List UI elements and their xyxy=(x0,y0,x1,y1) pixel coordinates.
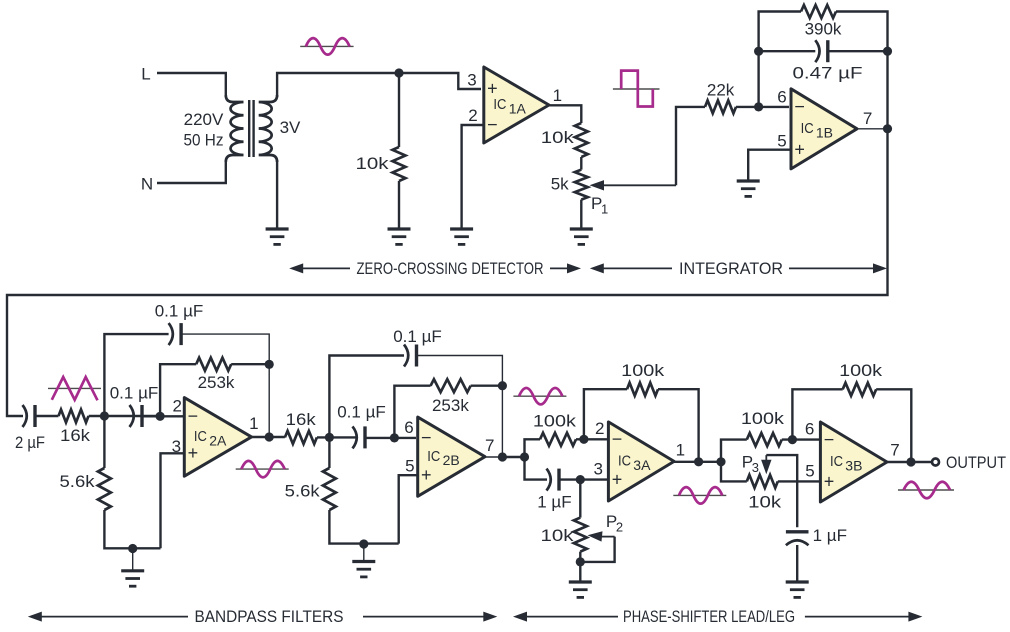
wire 10k top xyxy=(398,73,400,147)
wire feedback down to output first xyxy=(268,364,270,437)
svg-text:3V: 3V xyxy=(280,118,301,137)
resistor 390k xyxy=(801,5,836,18)
wire 100k feedback IC3B xyxy=(792,389,842,439)
square-wave symbol xyxy=(613,71,660,107)
wire L lead xyxy=(157,73,226,97)
wire 22k to IC1B pin6 xyxy=(736,106,789,108)
capacitor 0.47uF xyxy=(815,40,819,62)
wire IC2B output to branch xyxy=(502,456,524,458)
svg-text:22k: 22k xyxy=(707,81,735,100)
svg-text:5: 5 xyxy=(405,456,414,475)
wire P3 wiper to 1uF xyxy=(766,455,797,527)
wire branch up 100k input xyxy=(525,439,541,457)
ground transformer xyxy=(266,229,289,244)
svg-text:1: 1 xyxy=(676,441,685,460)
svg-text:0.1 µF: 0.1 µF xyxy=(155,301,204,320)
sine-wave symbol after IC3A xyxy=(673,487,726,504)
op-amp IC2A xyxy=(184,398,251,477)
wire 100k to pin6 IC3B xyxy=(782,438,819,440)
svg-text:0.1 µF: 0.1 µF xyxy=(110,384,159,403)
svg-text:0.47 µF: 0.47 µF xyxy=(793,64,863,83)
svg-text:−: − xyxy=(487,115,498,135)
wire 253k feedback first xyxy=(160,364,196,416)
sine-wave symbol input xyxy=(300,38,353,55)
svg-text:−: − xyxy=(824,429,835,449)
output terminal xyxy=(932,459,939,466)
svg-text:−: − xyxy=(612,429,623,449)
wire 253k to junction second xyxy=(471,385,503,387)
svg-text:5: 5 xyxy=(777,132,786,151)
svg-text:10k: 10k xyxy=(541,128,575,147)
svg-text:+: + xyxy=(824,471,835,491)
wiper P2 arrow xyxy=(588,531,615,541)
wire IC2B pin5 xyxy=(399,475,418,543)
svg-text:7: 7 xyxy=(863,109,872,128)
svg-text:+: + xyxy=(421,465,432,485)
svg-text:ZERO-CROSSING DETECTOR: ZERO-CROSSING DETECTOR xyxy=(357,260,544,278)
node junction 16k/5.6k xyxy=(100,411,109,420)
svg-text:IC: IC xyxy=(427,448,440,465)
transformer T1 secondary winding xyxy=(259,95,277,162)
resistor 22k xyxy=(705,100,736,113)
svg-text:390k: 390k xyxy=(805,20,842,39)
svg-text:2A: 2A xyxy=(209,432,227,448)
wire IC1B pin5 to ground xyxy=(748,150,791,181)
resistor 10k divider xyxy=(575,123,588,157)
svg-text:6: 6 xyxy=(805,419,814,438)
svg-text:2B: 2B xyxy=(443,452,460,468)
arrow zero-crossing right xyxy=(550,263,581,273)
op-amp IC1B xyxy=(791,89,857,169)
wire 16k to junction second xyxy=(317,436,356,438)
svg-text:100k: 100k xyxy=(621,361,665,380)
wire 5.6k vertical first xyxy=(104,416,160,548)
wire junction to IC2B pin6 xyxy=(365,437,416,439)
resistor 16k second xyxy=(285,431,317,444)
ground IC2B xyxy=(352,562,375,577)
node junction P2 bottom xyxy=(576,557,585,566)
wire 16k to junction xyxy=(89,415,160,417)
ground 1uF xyxy=(786,582,809,597)
svg-text:2 µF: 2 µF xyxy=(15,433,45,452)
resistor 5.6k second xyxy=(323,468,336,510)
wire IC3B output xyxy=(887,461,931,463)
node junction ground second xyxy=(359,539,368,548)
svg-text:3: 3 xyxy=(467,71,476,90)
resistor 5.6k first xyxy=(98,468,111,510)
node junction IC2A output xyxy=(265,432,274,441)
node junction P3 branch xyxy=(716,457,725,466)
svg-text:100k: 100k xyxy=(533,412,577,431)
svg-text:7: 7 xyxy=(485,436,494,455)
wire 10k bottom xyxy=(398,181,400,229)
wire branch up 100k input IC3B xyxy=(721,440,747,462)
capacitor 1uF IC3A xyxy=(547,469,551,491)
op-amp IC3A xyxy=(608,422,674,501)
transformer T1 core xyxy=(249,100,253,157)
svg-text:7: 7 xyxy=(890,440,899,459)
wire feedback left vertical xyxy=(759,12,801,107)
wire vertical feedback right xyxy=(886,51,888,129)
svg-text:1B: 1B xyxy=(816,124,833,140)
wire IC1B output xyxy=(857,128,888,130)
svg-text:16k: 16k xyxy=(286,410,317,429)
capacitor 2uF xyxy=(23,405,27,427)
wire 0.1uF feedback up second xyxy=(329,356,404,438)
arrow phase-shifter right xyxy=(805,612,923,622)
svg-text:+: + xyxy=(794,139,805,159)
resistor 253k first xyxy=(196,358,231,371)
svg-text:6: 6 xyxy=(404,418,413,437)
svg-text:253k: 253k xyxy=(198,373,235,392)
wire IC1A output xyxy=(549,105,581,123)
wire 0.1uF feedback thin first xyxy=(181,334,269,362)
node junction feedback second xyxy=(498,381,507,390)
node junction IC2B output xyxy=(498,452,507,461)
wire ground stub first xyxy=(132,549,134,571)
svg-text:5: 5 xyxy=(805,461,814,480)
arrow integrator left xyxy=(590,263,672,273)
svg-text:6: 6 xyxy=(777,87,786,106)
potentiometer P1 5k xyxy=(575,170,588,200)
svg-text:100k: 100k xyxy=(741,409,785,428)
node junction IC3B output xyxy=(906,457,915,466)
wire IC1A pin2 to ground xyxy=(462,125,484,229)
arrow integrator right xyxy=(789,263,887,273)
op-amp IC2B xyxy=(418,417,485,496)
wire branch down P3 xyxy=(721,462,747,482)
wire IC2A output xyxy=(252,436,285,438)
potentiometer P2 10k xyxy=(574,518,587,552)
wire P3 to pin5 IC3B xyxy=(778,480,819,482)
svg-text:1: 1 xyxy=(249,414,258,433)
wire 1uF to ground xyxy=(796,545,798,582)
wire P2 bottom xyxy=(579,552,581,582)
wire 100k to pin2 IC3A xyxy=(576,438,607,440)
svg-text:5.6k: 5.6k xyxy=(285,481,321,500)
wire feedback top right xyxy=(836,12,888,50)
capacitor 0.1uF series second xyxy=(353,426,357,448)
svg-text:0.1 µF: 0.1 µF xyxy=(393,327,442,346)
wire secondary bottom xyxy=(276,160,278,229)
arrow phase-shifter left xyxy=(513,612,618,622)
node junction 16k/5.6k second xyxy=(325,433,334,442)
node junction pin3 IC3A xyxy=(576,475,585,484)
svg-text:1 µF: 1 µF xyxy=(537,493,571,512)
svg-text:3: 3 xyxy=(593,460,602,479)
wiper P3 arrow xyxy=(761,455,771,474)
svg-text:0.1 µF: 0.1 µF xyxy=(337,402,386,421)
resistor 100k feedback IC3B xyxy=(843,383,876,396)
wire cap row right xyxy=(828,50,888,52)
ground IC2A xyxy=(121,571,144,586)
node junction secondary/10k xyxy=(394,68,403,77)
wire P2 wiper xyxy=(580,537,614,562)
svg-text:50 Hz: 50 Hz xyxy=(184,130,224,149)
svg-text:L: L xyxy=(141,65,150,84)
svg-text:10k: 10k xyxy=(541,526,575,545)
ground IC1B pin5 xyxy=(737,181,760,196)
capacitor 0.1uF feedback second xyxy=(404,345,408,367)
wire 10k-5k link xyxy=(580,157,582,170)
wire 253k feedback second xyxy=(394,386,430,438)
node junction cap left xyxy=(754,47,763,56)
svg-text:253k: 253k xyxy=(432,396,469,415)
node junction pin2 IC3A xyxy=(579,435,588,444)
node junction IC1B output xyxy=(883,124,892,133)
svg-text:2: 2 xyxy=(468,106,477,125)
svg-text:1A: 1A xyxy=(509,101,527,117)
wire cap 0.47uF row left xyxy=(759,50,816,52)
svg-text:2: 2 xyxy=(172,397,181,416)
ground 10k xyxy=(388,229,411,244)
transformer T1 primary winding xyxy=(226,95,244,162)
svg-text:N: N xyxy=(141,175,153,194)
wire 0.1uF feedback thin second xyxy=(417,356,503,455)
svg-text:INTEGRATOR: INTEGRATOR xyxy=(679,260,783,278)
svg-text:2: 2 xyxy=(616,520,623,535)
potentiometer P3 10k xyxy=(747,475,778,488)
svg-text:1: 1 xyxy=(601,202,608,217)
svg-text:5k: 5k xyxy=(551,175,569,194)
wire IC3A output xyxy=(674,461,721,463)
resistor 100k input IC3B xyxy=(747,433,782,446)
node junction feedback first xyxy=(265,360,274,369)
wire N lead xyxy=(157,160,226,183)
resistor 100k feedback IC3A xyxy=(627,383,658,396)
svg-text:BANDPASS FILTERS: BANDPASS FILTERS xyxy=(195,608,344,626)
svg-text:−: − xyxy=(188,406,199,426)
svg-text:OUTPUT: OUTPUT xyxy=(946,453,1006,472)
svg-text:IC: IC xyxy=(618,453,631,470)
svg-text:10k: 10k xyxy=(356,154,390,173)
sine-wave symbol output xyxy=(898,482,954,499)
svg-text:2: 2 xyxy=(595,419,604,438)
wire IC2A pin3 xyxy=(161,453,185,548)
node junction pin6 IC2B xyxy=(390,433,399,442)
svg-text:+: + xyxy=(612,469,623,489)
ground IC1A pin2 xyxy=(450,229,473,244)
op-amp IC3B xyxy=(820,422,887,502)
svg-text:5.6k: 5.6k xyxy=(60,472,96,491)
svg-text:1 µF: 1 µF xyxy=(813,526,847,545)
svg-text:100k: 100k xyxy=(839,361,883,380)
node junction ground first xyxy=(128,544,137,553)
svg-text:IC: IC xyxy=(801,120,814,137)
resistor 10k input xyxy=(393,147,406,181)
svg-text:+: + xyxy=(188,443,199,463)
ground P1 xyxy=(570,229,593,244)
svg-text:3: 3 xyxy=(752,460,759,475)
svg-text:PHASE-SHIFTER LEAD/LEG: PHASE-SHIFTER LEAD/LEG xyxy=(623,608,795,626)
svg-text:IC: IC xyxy=(493,96,506,113)
capacitor 0.1uF series first xyxy=(130,405,134,427)
node junction pin2 IC2A xyxy=(156,412,165,421)
triangle-wave symbol xyxy=(48,377,101,400)
svg-text:−: − xyxy=(421,428,432,448)
resistor 16k first xyxy=(59,410,89,423)
arrow zero-crossing left xyxy=(289,263,350,273)
wire secondary top to IC1A xyxy=(277,73,481,97)
sine-wave symbol after IC2A xyxy=(236,461,289,478)
resistor 253k second xyxy=(431,379,471,392)
wire pin3 down to P2 xyxy=(579,480,581,518)
wire integrator output wrap-around xyxy=(7,129,888,416)
resistor 100k input IC3A xyxy=(540,433,576,446)
wire junction to IC2A pin2 xyxy=(142,415,183,417)
wire P1 wiper to 22k xyxy=(676,107,705,185)
wire IC2B output xyxy=(485,456,502,458)
svg-text:3A: 3A xyxy=(633,457,651,473)
node junction 22k/feedback xyxy=(754,102,763,111)
wire 100k feedback IC3A xyxy=(584,389,627,439)
wire branch down 1uF xyxy=(525,457,548,480)
wire 5.6k vertical second xyxy=(329,437,398,543)
sine-wave symbol before IC3A xyxy=(513,388,566,405)
wire 2uF to 16k xyxy=(35,415,59,417)
ground P2 xyxy=(569,582,592,597)
svg-text:−: − xyxy=(794,97,805,117)
svg-text:10k: 10k xyxy=(748,493,782,512)
arrow bandpass left xyxy=(28,612,188,622)
svg-text:220V: 220V xyxy=(184,110,224,129)
node junction IC3A output xyxy=(694,457,703,466)
arrow bandpass right xyxy=(363,612,497,622)
node junction cap right xyxy=(883,47,892,56)
svg-text:16k: 16k xyxy=(60,426,91,445)
capacitor 1uF IC3B xyxy=(786,530,809,533)
wire ground stub second xyxy=(363,544,365,562)
node junction IC3A branch xyxy=(520,452,529,461)
svg-text:3B: 3B xyxy=(845,458,862,474)
wire feedback right IC3B xyxy=(876,389,911,462)
wiper P1 arrow xyxy=(590,180,677,190)
svg-text:IC: IC xyxy=(830,453,843,470)
op-amp IC1A xyxy=(484,67,549,143)
svg-text:1: 1 xyxy=(553,86,562,105)
node junction pin6 IC3B xyxy=(788,435,797,444)
wire 1uF to pin3 IC3A xyxy=(559,478,607,480)
wire 253k to junction first xyxy=(231,363,269,365)
capacitor 0.1uF feedback first xyxy=(169,323,173,345)
wire feedback right IC3A xyxy=(658,389,699,462)
wire 5k bottom xyxy=(580,200,582,229)
wire 0.1uF feedback up first xyxy=(104,334,168,416)
